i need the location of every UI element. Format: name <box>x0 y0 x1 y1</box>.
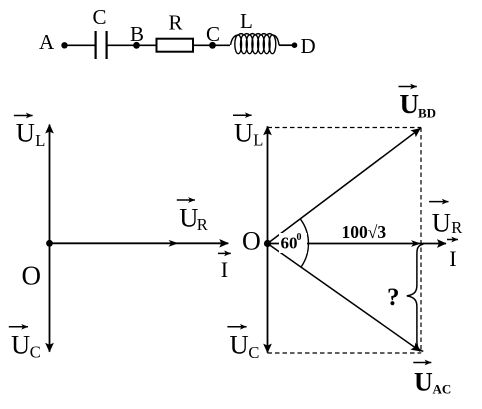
svg-text:100√3: 100√3 <box>342 222 387 242</box>
wire node C to inductor <box>213 44 231 46</box>
svg-text:U: U <box>230 330 249 360</box>
label UAC <box>413 363 451 397</box>
wire inductor to node D <box>279 44 294 46</box>
UR/100sqrt3 arrowhead on axis (right) <box>411 240 421 247</box>
svg-text:I: I <box>221 257 228 282</box>
svg-text:B: B <box>130 22 144 46</box>
vertical axis UL-UC (right) <box>267 126 269 352</box>
label UR (right) <box>429 202 462 238</box>
svg-text:I: I <box>449 246 456 271</box>
horizontal axis I (right) <box>268 243 447 245</box>
vector UBD <box>268 128 421 243</box>
wire capacitor to node B <box>108 44 137 46</box>
svg-text:R: R <box>169 10 183 34</box>
label UBD <box>399 87 437 121</box>
wire resistor to node C <box>193 44 212 46</box>
svg-text:R: R <box>197 215 208 234</box>
svg-text:U: U <box>179 202 198 232</box>
vector UAC <box>268 244 421 352</box>
label I (left) <box>218 253 231 282</box>
white backing for 60 label <box>279 233 307 253</box>
origin O dot (right) <box>264 240 271 247</box>
svg-text:U: U <box>414 368 433 397</box>
svg-text:C: C <box>248 343 259 362</box>
svg-text:C: C <box>206 22 220 46</box>
node C <box>209 42 216 49</box>
svg-text:U: U <box>400 89 420 119</box>
node A <box>61 42 67 48</box>
svg-text:A: A <box>39 30 55 54</box>
svg-text:U: U <box>16 118 35 148</box>
svg-text:BD: BD <box>418 106 436 121</box>
node D <box>292 42 298 48</box>
label UC (left) <box>9 327 41 362</box>
vertical axis UL-UC (left) <box>49 125 51 352</box>
svg-text:60: 60 <box>281 234 298 253</box>
svg-text:?: ? <box>387 284 400 311</box>
wire A to capacitor <box>65 44 95 46</box>
svg-text:D: D <box>301 34 316 58</box>
svg-text:C: C <box>93 5 107 29</box>
60 degree arc <box>300 219 308 267</box>
wire node B to resistor <box>137 44 157 46</box>
node B <box>133 42 140 49</box>
UR vector arrowhead (left) <box>169 240 179 247</box>
capacitor C plate 2 <box>105 31 107 59</box>
resistor R body <box>157 39 194 52</box>
label UC (right) <box>227 327 259 362</box>
svg-text:U: U <box>234 118 253 148</box>
svg-text:U: U <box>11 330 30 360</box>
svg-text:L: L <box>240 9 253 33</box>
capacitor C plate 1 <box>94 31 96 59</box>
svg-text:O: O <box>242 227 261 256</box>
brace for unknown segment <box>407 244 424 351</box>
inductor L coil <box>231 34 279 54</box>
dashed construction box <box>268 128 422 354</box>
svg-text:L: L <box>35 131 45 150</box>
svg-text:L: L <box>253 130 263 149</box>
svg-text:U: U <box>432 208 451 238</box>
svg-text:0: 0 <box>297 232 302 243</box>
label UL (right) <box>233 115 263 149</box>
origin O dot (left) <box>46 240 53 247</box>
label UL (left) <box>14 116 45 150</box>
svg-text:C: C <box>30 343 41 362</box>
label I (right) <box>447 240 458 272</box>
horizontal axis I (left) <box>50 242 229 244</box>
svg-text:R: R <box>451 218 462 237</box>
svg-text:AC: AC <box>433 382 452 397</box>
label UR (left) <box>177 200 208 234</box>
svg-text:O: O <box>22 261 42 291</box>
